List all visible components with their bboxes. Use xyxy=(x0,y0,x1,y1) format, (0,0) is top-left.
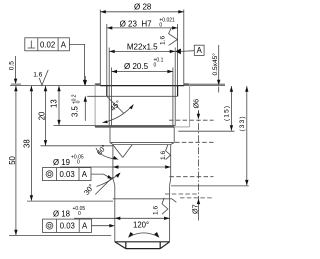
node bore dia20.5 right wall xyxy=(172,96,174,125)
wire frame dia18 leader xyxy=(92,225,113,227)
svg-text:0.03: 0.03 xyxy=(60,221,75,230)
wire ext line 50 bottom xyxy=(9,235,111,237)
node S3 left edge dia19 xyxy=(112,145,114,179)
wire rim top right extension xyxy=(189,83,225,85)
node bore dia20.5 left wall xyxy=(111,96,113,125)
concentricity frame dia19 xyxy=(43,168,92,181)
node S2 left edge xyxy=(109,127,111,143)
node thread M22 left crest line xyxy=(108,96,110,125)
dimension dia20.5 xyxy=(112,71,173,73)
node frustum left flank 120deg xyxy=(115,242,126,249)
wire ext line 3.5 bottom xyxy=(87,95,107,97)
angle 60deg arc at drill cone xyxy=(96,148,116,159)
wire perpendicularity leader xyxy=(69,44,84,82)
svg-text:Ø 19: Ø 19 xyxy=(53,158,70,167)
dimension 50 xyxy=(15,86,17,235)
node thread M22 right crest line xyxy=(174,96,176,125)
hidden hole dia7 upper dashed line xyxy=(170,176,214,178)
svg-text:A: A xyxy=(82,221,88,230)
dimension 13 xyxy=(58,86,60,126)
node rim top right segment xyxy=(184,83,189,85)
node groove diagonal right xyxy=(172,199,176,203)
dimension M22x1.5 xyxy=(109,50,175,52)
svg-text:0: 0 xyxy=(159,22,162,28)
dimension (33) xyxy=(246,86,248,185)
svg-text:Ø 28: Ø 28 xyxy=(134,3,152,12)
wire ext line dia23 right xyxy=(177,24,179,86)
svg-text:Ø 20.5: Ø 20.5 xyxy=(124,62,149,71)
svg-text:0.03: 0.03 xyxy=(60,170,75,179)
node taper 30deg right xyxy=(170,179,171,186)
node outer cylinder S1 left edge xyxy=(94,84,96,127)
wire ext line (33) xyxy=(171,185,249,187)
svg-text:A: A xyxy=(197,46,203,55)
wire dia6 leader arrow xyxy=(197,110,199,115)
wire ext line 38 bottom xyxy=(27,200,113,202)
wire ext line M22 right xyxy=(174,48,176,97)
svg-text:0.5: 0.5 xyxy=(9,61,16,70)
node S4 left edge dia18 xyxy=(114,185,116,242)
node shoulder S2/S3 upper xyxy=(110,142,174,144)
dimension dia28 xyxy=(100,11,184,13)
hidden hole dia7 lower dashed line xyxy=(180,197,214,199)
wire ext line dia20.5 left xyxy=(111,68,113,97)
node frustum right flank 120deg xyxy=(160,242,169,249)
node counterbore bottom face xyxy=(107,95,178,97)
svg-text:(33): (33) xyxy=(239,115,246,131)
node thread chamfer 45deg xyxy=(107,97,124,114)
dimension (15) xyxy=(230,86,232,131)
svg-text:50: 50 xyxy=(8,155,17,164)
svg-text:Ø 18: Ø 18 xyxy=(53,210,70,219)
node frustum left vertical xyxy=(125,242,127,249)
node step line at 38 depth xyxy=(113,198,172,200)
wire frame dia19 leader xyxy=(91,174,112,179)
angle 120deg arc xyxy=(128,233,159,237)
wire ext line dia28 left xyxy=(99,10,101,86)
angle 45deg arc xyxy=(103,105,134,123)
svg-text:0.5x45°: 0.5x45° xyxy=(211,53,219,76)
surface finish 1.6 top face xyxy=(39,70,48,85)
wire ext line (15) xyxy=(178,130,234,132)
svg-text:20: 20 xyxy=(37,111,46,120)
wire ext line 13 bottom xyxy=(54,125,110,127)
svg-text:0.02: 0.02 xyxy=(40,40,55,49)
node frustum right vertical xyxy=(159,242,161,249)
node drill cone V right xyxy=(123,145,133,158)
surface finish 1.6 right edge dia18 xyxy=(162,198,168,214)
svg-text:0: 0 xyxy=(77,159,80,165)
dimension dia23 H7 xyxy=(107,27,178,29)
dimension 20 xyxy=(45,86,47,146)
node cross hole centerline xyxy=(198,111,200,203)
svg-text:M22x1.5: M22x1.5 xyxy=(127,42,158,51)
wire top face extension line full width xyxy=(10,85,225,87)
svg-text:Ø6: Ø6 xyxy=(191,99,200,109)
svg-text:Ø 23 H7: Ø 23 H7 xyxy=(120,20,153,29)
concentricity frame dia18 xyxy=(43,219,92,232)
surface finish 1.6 right edge S2 xyxy=(166,145,171,160)
node bore dia23 left wall xyxy=(106,86,108,97)
node bottom face xyxy=(115,241,170,243)
svg-text:A: A xyxy=(61,40,67,49)
node drill cone V left xyxy=(113,145,123,158)
node bore dia23 right wall xyxy=(177,86,179,97)
dimension dia19 line xyxy=(60,166,171,168)
node S3 right edge dia19 xyxy=(170,145,172,179)
node rim top left segment xyxy=(95,83,100,85)
surface finish 1.6 upper right xyxy=(169,28,178,46)
hidden hole dia6 lower dashed line xyxy=(175,141,214,143)
svg-text:1.6: 1.6 xyxy=(160,151,167,160)
svg-text:3.5: 3.5 xyxy=(70,105,79,117)
hidden hole dashed line mid xyxy=(165,193,198,195)
svg-text:A: A xyxy=(82,170,88,179)
dimension dia18 line xyxy=(74,217,170,219)
node shoulder S2/S3 lower xyxy=(113,144,171,146)
wire ext line dia20.5 right xyxy=(172,68,174,97)
svg-text:1.6: 1.6 xyxy=(153,206,160,215)
node S4 right edge dia18 xyxy=(169,185,171,242)
wire ext line dia28 right xyxy=(183,10,185,86)
node shoulder S1/S2 xyxy=(95,126,174,128)
svg-text:(15): (15) xyxy=(223,105,230,121)
wire ext line 20 bottom xyxy=(41,145,113,147)
svg-text:0: 0 xyxy=(78,211,81,217)
node shoulder chamfer right xyxy=(171,143,175,145)
wire dia7 leader arrow xyxy=(198,202,200,221)
svg-text:120°: 120° xyxy=(133,221,149,230)
perpendicularity frame xyxy=(25,38,70,51)
node outer cylinder S1 right edge xyxy=(189,84,191,127)
node shoulder chamfer left xyxy=(110,143,113,145)
svg-text:38: 38 xyxy=(23,139,32,148)
svg-text:13: 13 xyxy=(50,99,59,108)
svg-text:1.6: 1.6 xyxy=(33,71,42,78)
node top face part segment (recess bottom) xyxy=(100,85,184,87)
svg-text:0: 0 xyxy=(75,100,81,103)
dimension 38 xyxy=(30,86,32,201)
wire ext line M22 left xyxy=(108,48,110,97)
svg-text:1.6: 1.6 xyxy=(160,36,167,45)
hidden hole dia6 upper dashed line xyxy=(169,119,214,121)
datum A symbol xyxy=(175,49,181,55)
node frustum bottom xyxy=(126,248,160,250)
dimension 3.5 xyxy=(84,76,86,83)
wire ext line dia23 left xyxy=(106,24,108,86)
node taper 30deg left xyxy=(113,179,115,186)
svg-text:0: 0 xyxy=(154,62,157,68)
dimension chamfer 0.5x45 xyxy=(218,45,220,82)
node S2 right edge xyxy=(173,127,175,143)
node thread bottom xyxy=(109,125,175,127)
